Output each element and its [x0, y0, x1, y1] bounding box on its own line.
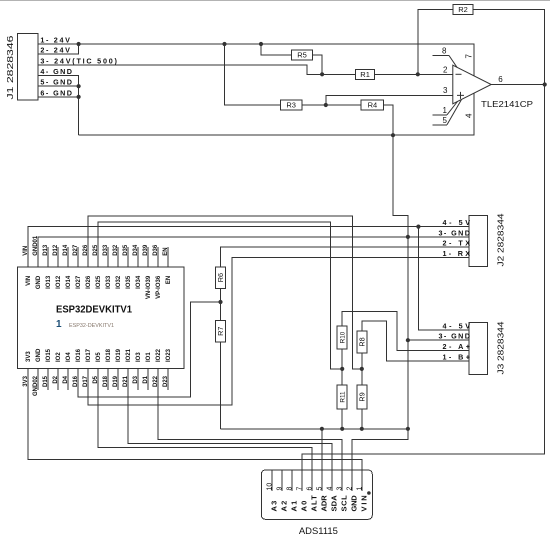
svg-text:5: 5 — [317, 487, 324, 491]
resistor R4 — [361, 100, 383, 110]
svg-text:ADS1115: ADS1115 — [299, 526, 338, 536]
label J1 pin 2 2- 24V — [40, 46, 70, 55]
label J3 2- A+ — [443, 342, 471, 351]
wire GND line from R7 to GND chain — [221, 428, 408, 430]
op-amp plus symbol — [457, 92, 464, 99]
label J1 2828346 — [5, 35, 15, 99]
wire J2 TX line down to R6 — [221, 247, 470, 267]
ESP32 top internal pin names — [26, 275, 172, 299]
svg-text:1: 1 — [443, 106, 448, 115]
resistor R10 — [337, 326, 347, 349]
label op-amp pin 8 — [442, 47, 447, 56]
svg-text:IO33: IO33 — [106, 275, 112, 289]
svg-text:TLE2141CP: TLE2141CP — [481, 99, 534, 109]
wire 5V branch down to J3 pin4 — [418, 227, 469, 330]
svg-text:GND02: GND02 — [33, 375, 39, 396]
resistor R1 — [356, 69, 375, 79]
wire 24V rail down to R3 — [225, 44, 281, 105]
svg-text:2- TX: 2- TX — [443, 239, 471, 248]
svg-text:IO3: IO3 — [136, 352, 142, 362]
node J1 pin1-pin2 junction — [77, 42, 81, 46]
svg-text:R6: R6 — [216, 273, 225, 282]
svg-text:D23: D23 — [163, 375, 169, 387]
svg-text:6: 6 — [307, 487, 314, 491]
svg-text:R4: R4 — [368, 101, 378, 110]
svg-text:ALT: ALT — [309, 495, 318, 512]
wire R10 top to J3 A+ — [342, 312, 469, 351]
svg-text:IO2: IO2 — [56, 352, 62, 362]
IC ESP32DEVKITV1 body — [18, 267, 185, 369]
svg-text:A0: A0 — [299, 501, 308, 512]
wire J3 GND line — [408, 339, 469, 341]
svg-text:IO4: IO4 — [66, 352, 72, 362]
connector J1 2828346 — [18, 34, 39, 101]
svg-text:J2 2828344: J2 2828344 — [495, 213, 505, 266]
svg-text:1: 1 — [357, 487, 364, 491]
wire R10 to divider junction — [341, 349, 343, 369]
svg-text:6: 6 — [498, 75, 503, 84]
ADS1115 pin names — [269, 495, 368, 512]
node feedback junction on pin2 net — [416, 72, 420, 76]
svg-text:GND: GND — [36, 275, 42, 289]
wire ESP32 3V3 to ADS1115 VIN — [28, 369, 362, 471]
wire GND rail to op-amp V- corner — [79, 93, 475, 135]
svg-text:IO5: IO5 — [96, 352, 102, 362]
svg-text:D35: D35 — [123, 244, 129, 256]
wire ESP32 GND to GND net of J2 — [38, 237, 469, 267]
svg-text:3- 24V(TIC 500): 3- 24V(TIC 500) — [40, 56, 117, 65]
label op-amp pin 1 — [443, 106, 448, 115]
resistor R6 — [216, 267, 226, 289]
wire R8 top to J3 B+ — [362, 321, 469, 361]
svg-text:IO17: IO17 — [86, 348, 92, 362]
svg-text:SDA: SDA — [329, 495, 338, 512]
wire R2 right to op-amp output — [473, 10, 545, 85]
wire J1 pin4 GND down to GND rail — [38, 75, 79, 135]
wire ESP32 VIN to 5V net — [28, 227, 469, 267]
wire J1 pin6 GND — [38, 96, 79, 98]
svg-text:R9: R9 — [357, 392, 366, 401]
wire R5 to op-amp inverting input net — [313, 55, 323, 75]
svg-text:2- A+: 2- A+ — [443, 342, 471, 351]
ESP32 top pin stubs — [28, 247, 168, 267]
label op-amp pin 6 — [498, 75, 503, 84]
svg-text:4: 4 — [327, 487, 334, 491]
svg-text:R3: R3 — [286, 101, 296, 110]
svg-text:5- GND: 5- GND — [40, 78, 72, 87]
svg-text:7: 7 — [465, 54, 474, 59]
svg-text:VIN: VIN — [359, 495, 368, 511]
op-amp output pin 6 wire — [491, 84, 545, 86]
node GND chain at J2 GND — [406, 235, 410, 239]
wire R3/R4 junction up to op-amp pin 3 — [326, 95, 453, 105]
svg-text:D4: D4 — [63, 375, 69, 383]
svg-text:IO21: IO21 — [126, 348, 132, 362]
svg-text:A3: A3 — [269, 501, 278, 512]
ESP32 bottom external net labels — [23, 375, 169, 396]
wire J1 pin5 GND — [38, 85, 79, 87]
svg-text:4: 4 — [465, 113, 474, 118]
svg-text:IO26: IO26 — [86, 275, 92, 289]
connector J2 2828344 — [469, 216, 488, 267]
svg-text:EN: EN — [166, 276, 172, 284]
svg-text:D36: D36 — [153, 244, 159, 256]
label J1 pin 5 5- GND — [40, 78, 72, 87]
node R4/GND rail junction — [391, 133, 395, 137]
label ESP32DEVKITV1 title — [56, 304, 132, 315]
svg-text:D2: D2 — [53, 375, 59, 383]
svg-text:IO32: IO32 — [116, 275, 122, 289]
node 5V net at J3 branch — [416, 225, 420, 229]
label J3 1- B+ — [443, 353, 471, 362]
wire R9 to GND line — [361, 409, 363, 429]
svg-text:SCL: SCL — [339, 495, 348, 512]
svg-text:VIN: VIN — [26, 276, 32, 286]
label U1 TLE2141CP — [481, 99, 534, 109]
svg-text:IO35: IO35 — [126, 275, 132, 289]
label J2 4- 5V — [443, 218, 471, 227]
svg-text:3- GND: 3- GND — [439, 228, 471, 237]
svg-text:R10: R10 — [340, 331, 347, 343]
svg-text:1- 24V: 1- 24V — [40, 36, 70, 45]
wire R3 to R4 — [302, 104, 361, 106]
window top border — [0, 0, 550, 2]
svg-text:D32: D32 — [113, 244, 119, 256]
connector J3 2828344 — [469, 323, 488, 375]
svg-text:IO22: IO22 — [156, 348, 162, 362]
svg-text:IO27: IO27 — [76, 275, 82, 289]
label J2 3- GND — [439, 228, 471, 237]
label J1 pin 4 4- GND — [40, 67, 72, 76]
label ESP32 gate number 1 — [56, 319, 62, 330]
svg-text:R7: R7 — [216, 327, 225, 336]
svg-text:IO23: IO23 — [166, 348, 172, 362]
svg-text:2: 2 — [443, 65, 448, 74]
svg-text:D12: D12 — [53, 244, 59, 256]
svg-text:ESP32-DEVKITV1: ESP32-DEVKITV1 — [69, 323, 114, 329]
svg-text:1- B+: 1- B+ — [443, 353, 471, 362]
svg-text:R1: R1 — [360, 70, 370, 79]
wire R6 to junction — [220, 289, 222, 303]
wire R7 down to GND line — [220, 342, 222, 429]
op-amp pin 5 diagonal — [447, 100, 462, 125]
svg-text:A1: A1 — [289, 501, 298, 512]
svg-text:R11: R11 — [340, 391, 347, 403]
svg-text:D15: D15 — [43, 375, 49, 387]
wire 24V rail down to R5 — [261, 44, 292, 55]
wire ADR down to ADS1115 — [321, 429, 323, 470]
svg-text:D3: D3 — [133, 375, 139, 383]
label op-amp pin 5 — [443, 116, 448, 125]
resistor R9 — [357, 385, 367, 409]
label J2 2- TX — [443, 239, 471, 248]
svg-text:VP-IO36: VP-IO36 — [156, 275, 162, 299]
svg-text:D33: D33 — [103, 244, 109, 256]
label op-amp pin 4 — [465, 113, 474, 118]
svg-text:IO1: IO1 — [146, 352, 152, 362]
node ADR tap on GND line — [320, 427, 324, 431]
label J2 1- RX — [443, 249, 471, 258]
svg-text:2- 24V: 2- 24V — [40, 46, 70, 55]
svg-text:D34: D34 — [133, 244, 139, 256]
ESP32 top external net labels — [23, 235, 169, 256]
wire junction to R9 — [361, 369, 363, 385]
op-amp pin 8 stub — [433, 54, 449, 56]
wire ESP32 D21 to ADS1115 SDA — [128, 369, 332, 471]
svg-text:3: 3 — [337, 487, 344, 491]
wire R2 left to inverting input — [418, 10, 453, 75]
label op-amp pin 2 — [443, 65, 448, 74]
wire ESP32 D26 to R8/R9 divider — [88, 216, 362, 369]
label J2 2828344 — [495, 213, 505, 266]
label ADS1115 — [299, 526, 338, 536]
wire J2 RX line to ESP32 D17 — [88, 258, 469, 406]
resistor R3 — [281, 100, 302, 110]
op-amp pin 5 stub — [433, 124, 448, 126]
svg-text:J1 2828346: J1 2828346 — [5, 35, 15, 99]
svg-text:D27: D27 — [73, 244, 79, 256]
node R9 on GND line — [360, 427, 364, 431]
svg-text:GND: GND — [36, 348, 42, 362]
node R8/R9 junction — [360, 367, 364, 371]
svg-text:D14: D14 — [63, 244, 69, 256]
svg-text:A2: A2 — [279, 501, 288, 512]
svg-text:4- 5V: 4- 5V — [443, 218, 471, 227]
label J3 4- 5V — [443, 321, 471, 330]
wire J1 pin3 24V(TIC 500) to pin2 net of op-amp — [38, 65, 322, 74]
svg-text:8: 8 — [287, 487, 294, 491]
svg-text:EN: EN — [163, 247, 169, 255]
svg-text:ADR: ADR — [319, 495, 328, 512]
wire pin2 net to R1 — [322, 73, 355, 75]
svg-text:4- 5V: 4- 5V — [443, 321, 471, 330]
node op-amp output junction — [543, 82, 547, 86]
svg-text:1: 1 — [56, 319, 62, 330]
wire R1 to op-amp pin 2 — [375, 73, 453, 75]
node R3/R4 junction — [324, 103, 328, 107]
svg-text:3- GND: 3- GND — [439, 332, 471, 341]
wire R6/R7 junction to ESP32 D16 — [78, 302, 221, 397]
svg-text:GND: GND — [349, 495, 358, 512]
svg-text:IO18: IO18 — [106, 348, 112, 362]
wire J1 pin2 to 24V rail — [38, 44, 79, 54]
IC ADS1115 body — [261, 470, 372, 519]
svg-text:IO16: IO16 — [76, 348, 82, 362]
svg-text:7: 7 — [297, 487, 304, 491]
svg-text:IO14: IO14 — [66, 275, 72, 289]
ESP32 bottom internal pin names — [26, 348, 172, 362]
op-amp pin 1 stub — [433, 114, 448, 116]
wire R8 to divider junction — [361, 353, 363, 369]
ADS1115 internal pin stubs — [272, 470, 362, 491]
svg-text:D18: D18 — [103, 375, 109, 387]
wire GND chain to ADS1115 GND pin — [352, 429, 408, 470]
label op-amp pin 3 — [443, 86, 448, 95]
resistor R7 — [216, 320, 226, 342]
node 24V rail R3 tap — [222, 42, 226, 46]
op-amp U1 TLE2141CP triangle — [453, 65, 491, 104]
svg-text:R8: R8 — [357, 337, 366, 346]
svg-text:4- GND: 4- GND — [40, 67, 72, 76]
svg-text:3: 3 — [443, 86, 448, 95]
svg-text:IO34: IO34 — [136, 275, 142, 289]
node J1 pin5 junction — [77, 84, 81, 88]
resistor R8 — [357, 331, 367, 353]
label J1 pin 6 6- GND — [40, 88, 72, 97]
wire op-amp output down to ADS1115 A0 — [302, 85, 545, 471]
svg-text:IO25: IO25 — [96, 275, 102, 289]
svg-text:IO15: IO15 — [46, 348, 52, 362]
wire GND rail down to J2/J3/ADS GND chain — [393, 135, 408, 429]
svg-text:1- RX: 1- RX — [443, 249, 471, 258]
svg-text:3V3: 3V3 — [26, 351, 32, 362]
wire junction to R11 — [341, 369, 343, 385]
node R10/R11 junction — [340, 367, 344, 371]
svg-text:ESP32DEVKITV1: ESP32DEVKITV1 — [56, 304, 132, 315]
ADS1115 pin-1 marker — [367, 491, 371, 495]
svg-text:6- GND: 6- GND — [40, 88, 72, 97]
svg-text:2: 2 — [347, 487, 354, 491]
node R5/TIC500 junction on pin2 net — [320, 72, 324, 76]
svg-text:J3 2828344: J3 2828344 — [495, 321, 505, 374]
op-amp pin 8 diagonal — [449, 55, 457, 67]
resistor R11 — [337, 385, 347, 409]
svg-text:IO12: IO12 — [56, 275, 62, 289]
label J1 pin 3 3- 24V(TIC 500) — [40, 56, 117, 65]
op-amp minus symbol — [456, 73, 462, 75]
svg-text:D1: D1 — [143, 375, 149, 383]
node R6/R7 junction — [218, 300, 222, 304]
svg-text:R5: R5 — [297, 50, 307, 59]
ESP32 bottom pin stubs — [28, 369, 168, 391]
node J1 pin6 junction — [77, 95, 81, 99]
svg-text:8: 8 — [442, 47, 447, 56]
resistor R2 — [453, 5, 473, 15]
wire ESP32 D5 to ADS1115 ALT — [98, 369, 312, 471]
node GND chain at resistor GND line — [406, 427, 410, 431]
ADS1115 pin numbers — [267, 483, 364, 491]
resistor R5 — [292, 50, 313, 60]
node R11 on GND line — [340, 427, 344, 431]
wire R4 to GND rail — [384, 105, 393, 135]
svg-text:D19: D19 — [113, 375, 119, 387]
label ESP32-DEVKITV1 subtitle — [69, 323, 114, 329]
svg-text:IO13: IO13 — [46, 275, 52, 289]
node GND chain at J3 GND — [406, 338, 410, 342]
svg-text:5: 5 — [443, 116, 448, 125]
svg-text:9: 9 — [277, 487, 284, 491]
svg-text:R2: R2 — [458, 5, 468, 14]
op-amp pin 1 diagonal — [447, 102, 458, 115]
wire R11 to GND line — [341, 409, 343, 429]
svg-text:IO19: IO19 — [116, 348, 122, 362]
svg-text:VN-IO39: VN-IO39 — [146, 275, 152, 299]
label J3 3- GND — [439, 332, 471, 341]
label J3 2828344 — [495, 321, 505, 374]
wire junction to R7 — [220, 302, 222, 320]
wire 24V rail from J1 pin1 to op-amp V+ corner — [38, 44, 474, 76]
svg-text:10: 10 — [267, 483, 274, 491]
svg-text:D13: D13 — [43, 244, 49, 256]
node 24V rail R5 tap — [259, 42, 263, 46]
svg-text:D39: D39 — [143, 244, 149, 256]
wire ESP32 D25 to R10/R11 divider — [98, 222, 342, 369]
label op-amp pin 7 — [465, 54, 474, 59]
label J1 pin 1 1- 24V — [40, 36, 70, 45]
wire ESP32 D22 to ADS1115 SCL — [158, 369, 342, 471]
